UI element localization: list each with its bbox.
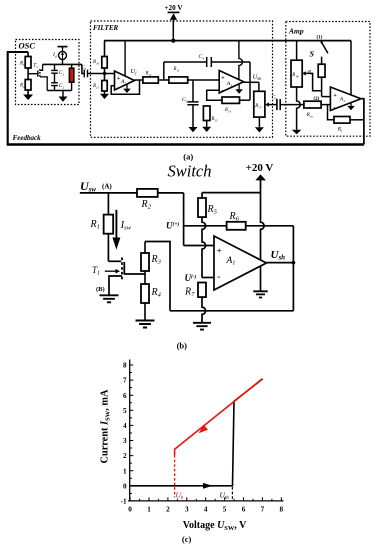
- svg-text:Amp: Amp: [288, 27, 304, 36]
- R17 wiper arrow: [265, 102, 277, 106]
- resistor R14 feedback: [222, 97, 240, 114]
- svg-text:Switch: Switch: [168, 162, 212, 181]
- supply +20V (panel a): [164, 4, 183, 41]
- resistor R4: [141, 284, 162, 321]
- ground (OSC divider): [23, 95, 33, 101]
- svg-text:R14: R14: [224, 108, 231, 114]
- capacitor C1 (OSC): [51, 64, 64, 82]
- potentiometer R17: [254, 91, 265, 127]
- node input junction: [103, 72, 106, 75]
- wire divider to T1 gate: [28, 73, 38, 75]
- resistor R2: [137, 189, 158, 211]
- capacitor C4 branch: [164, 54, 250, 80]
- svg-text:6: 6: [123, 392, 127, 400]
- resistor R10: [92, 41, 107, 74]
- svg-text:3: 3: [123, 437, 127, 445]
- svg-text:8: 8: [280, 506, 284, 514]
- svg-text:3: 3: [185, 506, 189, 514]
- graph tick labels: [121, 362, 284, 514]
- supply branch wire to R5: [202, 192, 261, 194]
- resistor Rin: [304, 101, 321, 118]
- wire R14 to output node: [240, 99, 251, 101]
- A1 output wire: [266, 226, 295, 311]
- black dashed Uth marker: [231, 487, 233, 500]
- graph axes: [128, 360, 284, 501]
- OSC bottom wire: [47, 90, 71, 92]
- A4 output wire to feedback bus: [361, 99, 364, 145]
- svg-text:R15: R15: [211, 117, 218, 123]
- resistor R15 to ground: [203, 106, 218, 127]
- svg-text:4: 4: [123, 422, 127, 430]
- resistor R11: [92, 74, 107, 94]
- svg-text:Current ISW, mA: Current ISW, mA: [100, 389, 112, 463]
- svg-text:(A): (A): [102, 183, 112, 191]
- svg-text:0: 0: [128, 506, 132, 514]
- svg-text:(B): (B): [96, 286, 105, 293]
- wire R12-R13: [158, 79, 169, 81]
- R18 wiper wire to node 2: [302, 71, 321, 91]
- svg-text:5: 5: [123, 407, 127, 415]
- svg-text:-: -: [333, 104, 335, 111]
- svg-text:Voltage USW, V: Voltage USW, V: [183, 520, 247, 532]
- ground (A1 V-): [253, 291, 268, 297]
- + input wire: [184, 245, 214, 247]
- resistor Rs: [307, 64, 325, 96]
- svg-text:1: 1: [123, 467, 127, 475]
- resistor R13: [169, 67, 188, 83]
- ground (A2 V-): [123, 84, 131, 93]
- op-amp A3: [219, 71, 244, 95]
- svg-text:FILTER: FILTER: [93, 24, 118, 32]
- capacitor C5 to ground: [182, 80, 199, 127]
- resistor R7: [184, 283, 206, 323]
- svg-text:7: 7: [261, 506, 265, 514]
- wire R3 top to output feedback: [145, 242, 170, 311]
- resistor R1: [90, 193, 114, 261]
- wire Rin to A4 - input: [321, 104, 330, 106]
- svg-text:R13: R13: [173, 67, 180, 73]
- resistor R12: [143, 72, 158, 84]
- svg-text:8: 8: [123, 362, 127, 370]
- svg-text:R12: R12: [145, 72, 152, 78]
- svg-text:(b): (b): [177, 341, 188, 351]
- ground (A3 V-): [235, 84, 243, 94]
- ground (R18): [292, 130, 302, 135]
- U+ wire through R6 (hysteresis): [184, 225, 227, 227]
- svg-text:6: 6: [242, 506, 246, 514]
- feedback bus wire: [7, 52, 364, 145]
- R18 lower wire with hop over signal, to ground: [297, 87, 301, 130]
- resistor R5 divider: [198, 193, 218, 278]
- ground (A4 V-): [347, 103, 355, 111]
- svg-text:(c): (c): [182, 534, 192, 544]
- resistor R6: [227, 211, 246, 230]
- red return curve: [175, 379, 262, 497]
- ground (OSC bottom): [59, 91, 68, 102]
- power rail +20V (panel a): [104, 39, 351, 43]
- op-amp A4: [330, 87, 361, 111]
- svg-text:Rb: Rb: [19, 62, 25, 68]
- svg-text:+20 V: +20 V: [164, 4, 183, 12]
- svg-text:R11: R11: [92, 84, 99, 90]
- ground (C5): [189, 127, 198, 132]
- svg-text:0: 0: [123, 482, 127, 490]
- svg-text:5: 5: [223, 506, 227, 514]
- transistor T1 (switch): [108, 258, 124, 296]
- FILTER block dashed box: [91, 21, 273, 137]
- +20V wire down through A1 to ground: [261, 180, 265, 291]
- svg-text:Ra: Ra: [19, 84, 25, 90]
- svg-text:+: +: [333, 93, 337, 99]
- resistor Ra (OSC divider bottom): [19, 80, 31, 95]
- svg-text:2: 2: [123, 452, 127, 460]
- current Isw arrow: [112, 210, 131, 250]
- red arrow on return curve: [199, 425, 208, 434]
- svg-text:-: -: [221, 87, 223, 94]
- A3 output node wires: [244, 62, 259, 100]
- sensor element (red): [69, 64, 73, 90]
- wire R2 branch down to comparator: [183, 193, 185, 246]
- wire input to A2: [105, 73, 115, 75]
- op-amp A1: [214, 236, 266, 290]
- A2 V+ supply wire: [124, 41, 126, 76]
- capacitor C2 (OSC): [51, 83, 64, 91]
- potentiometer R18: [291, 41, 302, 87]
- svg-text:-: -: [117, 84, 119, 91]
- svg-text:(a): (a): [183, 152, 193, 162]
- svg-text:(1): (1): [317, 36, 323, 41]
- ground (R15): [202, 127, 211, 132]
- wire A2 out: [135, 79, 143, 81]
- svg-text:-1: -1: [121, 498, 127, 506]
- bottom feedback wire: [170, 310, 293, 312]
- wire node2 to A4 + input: [322, 96, 331, 98]
- A2 follower feedback loop: [111, 80, 139, 94]
- ground (R7): [193, 323, 211, 330]
- - input wire: [202, 277, 214, 279]
- A3 inverting input network wire: [207, 90, 222, 100]
- ground (T1 source): [100, 295, 119, 302]
- A4 V+ supply wire: [350, 41, 352, 95]
- T1 label arrow: [92, 265, 120, 277]
- svg-text:Feedback: Feedback: [13, 134, 41, 142]
- svg-text:7: 7: [123, 377, 127, 385]
- resistor Rb (OSC divider top): [19, 52, 31, 80]
- capacitor C6 coupling: [272, 94, 304, 110]
- svg-text:1: 1: [147, 506, 151, 514]
- svg-text:+: +: [221, 76, 225, 82]
- svg-text:R17: R17: [254, 104, 262, 110]
- svg-text:OSC: OSC: [19, 41, 36, 51]
- OSC block dashed box: [16, 40, 80, 105]
- T1 gate wire to R3/R4: [124, 273, 145, 275]
- switch S: [310, 41, 328, 64]
- input wire through R2: [80, 192, 137, 194]
- svg-text:2: 2: [166, 506, 170, 514]
- black sweep-up curve: [130, 379, 263, 489]
- svg-text:R18: R18: [291, 73, 299, 79]
- OSC top node wire: [43, 63, 82, 65]
- svg-text:4: 4: [204, 506, 208, 514]
- wire R13 to A3: [188, 79, 220, 81]
- svg-text:R10: R10: [92, 60, 100, 66]
- svg-text:+: +: [217, 246, 222, 256]
- svg-text:S: S: [310, 50, 315, 59]
- capacitor C3 coupling: [81, 64, 105, 77]
- current source Id: [52, 47, 68, 65]
- svg-text:-: -: [217, 272, 220, 282]
- supply +20V (panel b): [246, 162, 274, 180]
- resistor Rf feedback: [328, 105, 364, 134]
- ground (R11): [100, 94, 109, 99]
- A3 V+ supply wire with hop over C4: [239, 41, 243, 79]
- resistor R3: [141, 242, 162, 285]
- Amp block dashed box: [286, 22, 370, 137]
- ground (R4): [136, 321, 155, 328]
- ground (R17): [255, 127, 264, 132]
- op-amp A2: [115, 71, 135, 91]
- transistor T1 (OSC): [33, 63, 47, 91]
- svg-text:+20 V: +20 V: [246, 162, 274, 174]
